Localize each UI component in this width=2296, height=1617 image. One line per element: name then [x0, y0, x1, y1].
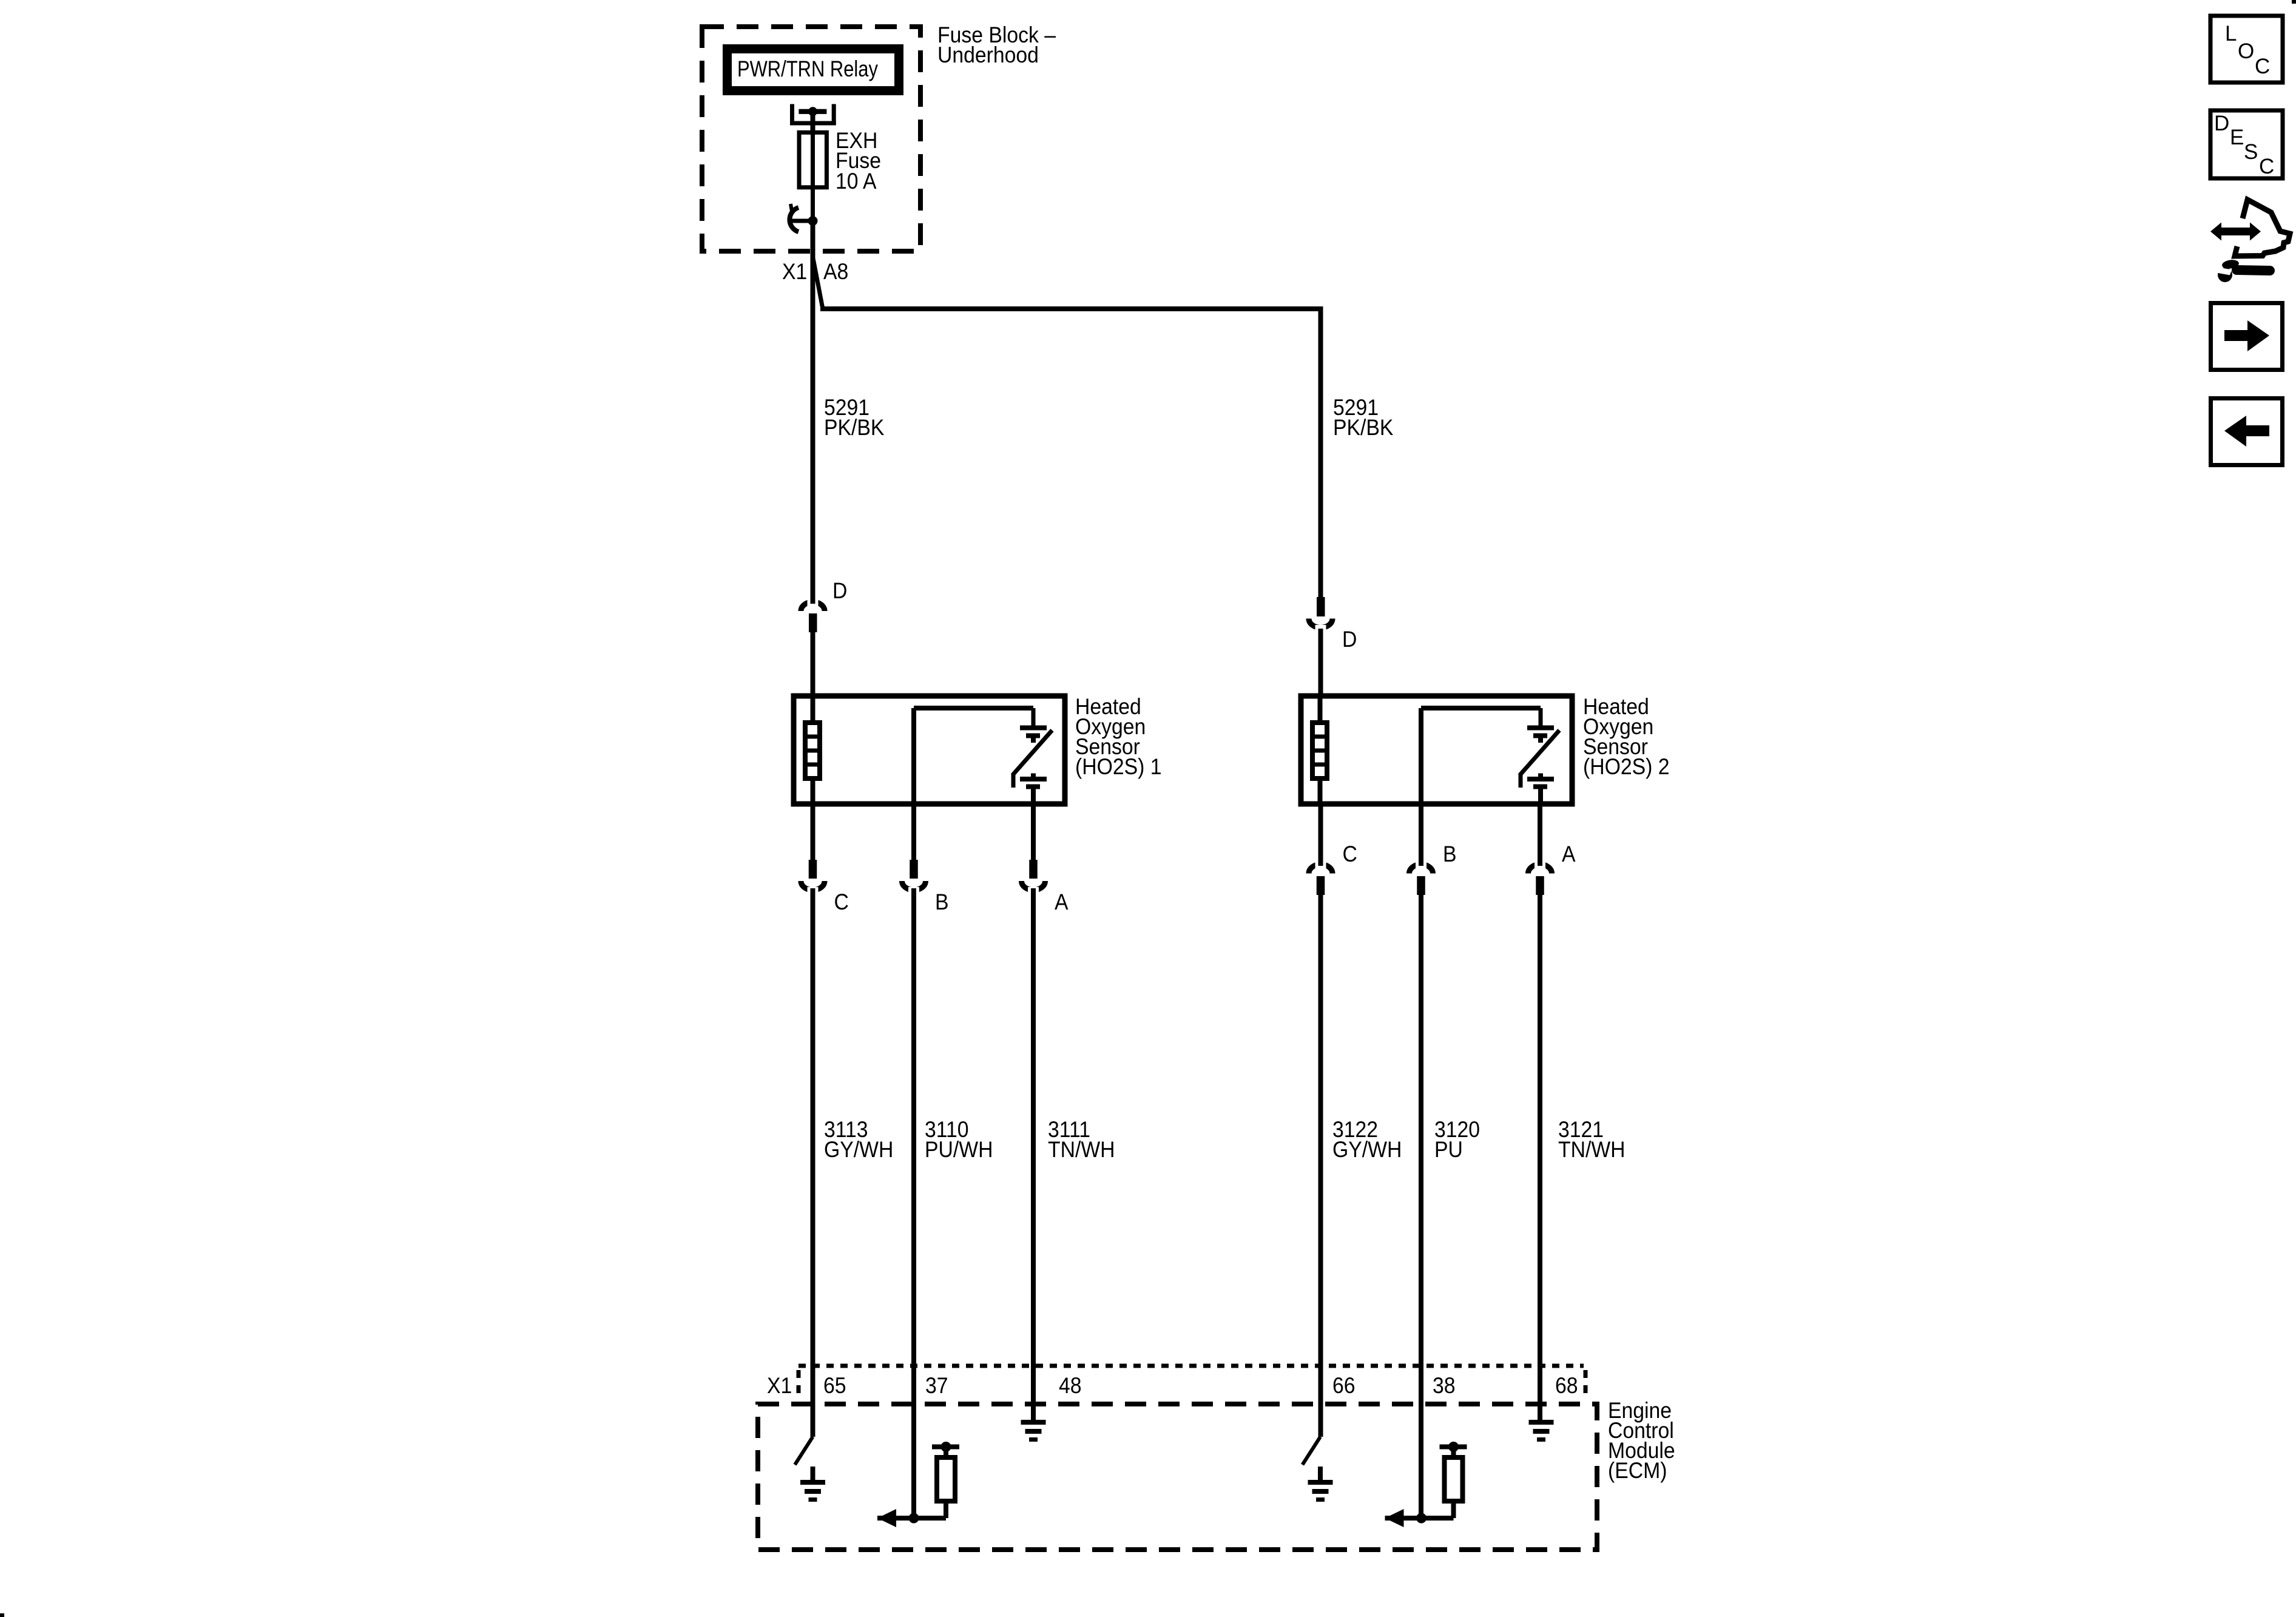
connector C left group (pin) [809, 860, 817, 879]
wire below connector A [1538, 895, 1542, 934]
svg-text:C: C [2255, 55, 2270, 78]
ECM connector face dotted line [799, 1364, 1584, 1368]
HO2S box 2 [1301, 696, 1572, 804]
page corner mark top-right [2292, 0, 2296, 4]
sensor cell bottom plates 2 [1538, 774, 1543, 778]
connector B left group (cup) [902, 881, 926, 890]
wire through fuse [811, 135, 815, 221]
svg-text:PK/BK: PK/BK [1333, 414, 1394, 440]
svg-text:(ECM): (ECM) [1608, 1457, 1667, 1483]
svg-text:D: D [1342, 626, 1357, 652]
junction dot below fuse [808, 216, 818, 226]
icon next-page box [2211, 303, 2283, 370]
svg-text:68: 68 [1555, 1372, 1578, 1398]
wire heater top 1 [811, 696, 815, 723]
icon LOC box [2210, 16, 2283, 83]
connector A right group (dome) [1528, 865, 1552, 874]
svg-text:S: S [2244, 140, 2258, 164]
svg-text:(HO2S) 1: (HO2S) 1 [1075, 754, 1161, 779]
wire B loop 1 [911, 708, 916, 804]
fuse holder clip bar [799, 109, 826, 114]
wire 3122 GY/WH [1319, 931, 1323, 1437]
icon next-page arrow [2224, 330, 2249, 341]
svg-text:C: C [1343, 841, 1357, 866]
wire HO2S2 to connector B [1419, 804, 1423, 864]
terminal clip symbol [789, 208, 799, 232]
svg-text:L: L [2225, 22, 2237, 46]
ECM dashed box [758, 1404, 1597, 1550]
junction dot (right) [1416, 1513, 1427, 1524]
voltage node dot (right) [1448, 1442, 1459, 1452]
wire heater top 2 [1318, 696, 1323, 723]
svg-text:X1: X1 [767, 1372, 792, 1398]
ground symbol pin 68 [1529, 1420, 1554, 1425]
icon repair wrench [2221, 259, 2240, 270]
sensor cell diagonal 2 [1521, 731, 1559, 775]
junction dot (left) [909, 1513, 919, 1524]
svg-text:48: 48 [1059, 1372, 1082, 1398]
wire horizontal to right branch [820, 306, 1321, 311]
wire to arrow (right) [1385, 1516, 1454, 1521]
connector D right (cup) [1309, 619, 1332, 628]
icon repair outline [2235, 200, 2290, 256]
connector D left (pin) [809, 613, 817, 632]
svg-text:O: O [2238, 39, 2254, 63]
relay K: PWR/TRN Relay box [728, 49, 899, 91]
wire HO2S2 to connector C [1319, 804, 1323, 864]
resistor bottom stub (left) [944, 1501, 948, 1518]
svg-text:C: C [2259, 155, 2274, 178]
ECM connector X1 separator left [797, 1370, 801, 1399]
wire right branch down [1319, 306, 1323, 599]
svg-text:Underhood: Underhood [937, 42, 1039, 67]
voltage node T-bar (left) [932, 1445, 959, 1450]
svg-text:PU: PU [1434, 1136, 1463, 1162]
svg-text:PU/WH: PU/WH [925, 1136, 993, 1162]
svg-text:D: D [2214, 112, 2229, 135]
connector B right group (pin) [1417, 876, 1425, 895]
wire sensor out 1 [1031, 789, 1036, 804]
svg-text:38: 38 [1433, 1372, 1456, 1398]
heater element HO2S 2 [1312, 723, 1327, 778]
ECM connector separator right [1584, 1370, 1588, 1399]
connector D right (pin) [1317, 597, 1325, 616]
icon prev-page arrow [2245, 425, 2269, 436]
wire 3113 GY/WH [811, 931, 815, 1437]
voltage node dot (left) [941, 1442, 951, 1452]
heater element HO2S 1 [805, 723, 820, 778]
switch ground stem (right) [1318, 1467, 1323, 1481]
svg-text:65: 65 [823, 1372, 846, 1398]
resistor top stub (left) [944, 1448, 948, 1457]
wire D-pin to HO2S1 [811, 632, 815, 696]
svg-text:D: D [832, 578, 847, 603]
connector A right group (pin) [1536, 876, 1544, 895]
wire HO2S1 to connector A [1031, 804, 1036, 860]
wire slant split [813, 257, 823, 309]
wire below connector C [1319, 895, 1323, 934]
icon repair double arrow [2210, 223, 2261, 241]
svg-text:B: B [1443, 841, 1457, 866]
arrow to other circuits (right) [1385, 1509, 1404, 1527]
wire heater bottom 2 [1318, 778, 1323, 804]
wire 3121 TN/WH [1538, 931, 1542, 1420]
svg-text:(HO2S) 2: (HO2S) 2 [1583, 754, 1669, 779]
voltage node T-bar (right) [1440, 1445, 1467, 1450]
wire 3111 TN/WH [1031, 931, 1036, 1420]
resistor bottom stub (right) [1451, 1501, 1456, 1518]
svg-text:PK/BK: PK/BK [824, 414, 885, 440]
svg-text:GY/WH: GY/WH [1332, 1136, 1402, 1162]
svg-text:B: B [935, 889, 949, 914]
svg-text:A8: A8 [823, 258, 848, 284]
wire 3110 PU/WH [911, 931, 916, 1518]
connector C right group (pin) [1317, 876, 1325, 895]
svg-text:A: A [1562, 841, 1576, 866]
sensor cell top plates 2 [1527, 726, 1554, 731]
wire 3120 PU [1419, 931, 1423, 1518]
connector A left group (pin) [1029, 860, 1038, 879]
icon DESC box [2210, 110, 2283, 178]
connector A left group (cup) [1022, 881, 1045, 890]
wire heater bottom 1 [811, 778, 815, 804]
svg-text:C: C [834, 889, 849, 914]
wire HO2S1 to connector B [911, 804, 916, 860]
svg-text:GY/WH: GY/WH [824, 1136, 893, 1162]
svg-text:66: 66 [1332, 1372, 1356, 1398]
switch S pin (left) [795, 1437, 813, 1465]
resistor R body (left) [937, 1457, 955, 1501]
svg-text:TN/WH: TN/WH [1558, 1136, 1626, 1162]
switch ground stem (left) [811, 1467, 815, 1481]
HO2S box 1 [794, 696, 1065, 804]
fuse block - underhood dashed box [702, 27, 920, 251]
fuse holder U bracket [790, 104, 794, 126]
connector B left group (pin) [910, 860, 918, 879]
wire to arrow (left) [877, 1516, 946, 1521]
svg-text:PWR/TRN Relay: PWR/TRN Relay [737, 56, 879, 81]
svg-text:E: E [2230, 126, 2244, 149]
sensor cell diagonal 1 [1013, 731, 1052, 775]
ground symbol (switch) (left) [800, 1480, 825, 1485]
svg-text:A: A [1055, 889, 1069, 914]
wire junction to X1/A8 node [811, 221, 815, 261]
wire below connector B [1419, 895, 1423, 934]
wire HO2S2 to connector A [1538, 804, 1542, 864]
fuse F: EXH Fuse 10 A body [799, 132, 826, 187]
wire relay to fuse [811, 112, 815, 135]
wire B loop 2 [1419, 708, 1423, 804]
sensor cell top plates 1 [1020, 726, 1047, 731]
wire sensor out 2 [1538, 789, 1543, 804]
resistor R body (right) [1445, 1457, 1463, 1501]
wire left branch down [811, 257, 815, 602]
svg-text:X1: X1 [782, 258, 807, 284]
connector B right group (dome) [1410, 865, 1433, 874]
arrow to other circuits (left) [877, 1509, 896, 1527]
connector C left group (cup) [801, 881, 825, 890]
resistor top stub (right) [1451, 1448, 1456, 1457]
svg-text:10 A: 10 A [836, 168, 877, 194]
wire HO2S1 to connector C [811, 804, 815, 860]
svg-text:37: 37 [925, 1372, 948, 1398]
sensor cell bottom plates 1 [1031, 774, 1036, 778]
connector C right group (dome) [1309, 865, 1332, 874]
fuse holder node dot [808, 107, 817, 116]
icon prev-page box [2211, 399, 2283, 465]
svg-text:TN/WH: TN/WH [1048, 1136, 1115, 1162]
page corner mark bottom-left [0, 1613, 4, 1617]
ground symbol pin 48 [1021, 1420, 1046, 1425]
ground symbol pin 48 stem [1031, 1368, 1036, 1420]
switch S pin (right) [1303, 1437, 1321, 1465]
ground symbol pin 68 stem [1538, 1368, 1542, 1420]
ground symbol (switch) (right) [1308, 1480, 1333, 1485]
connector D left (dome) [801, 602, 825, 611]
